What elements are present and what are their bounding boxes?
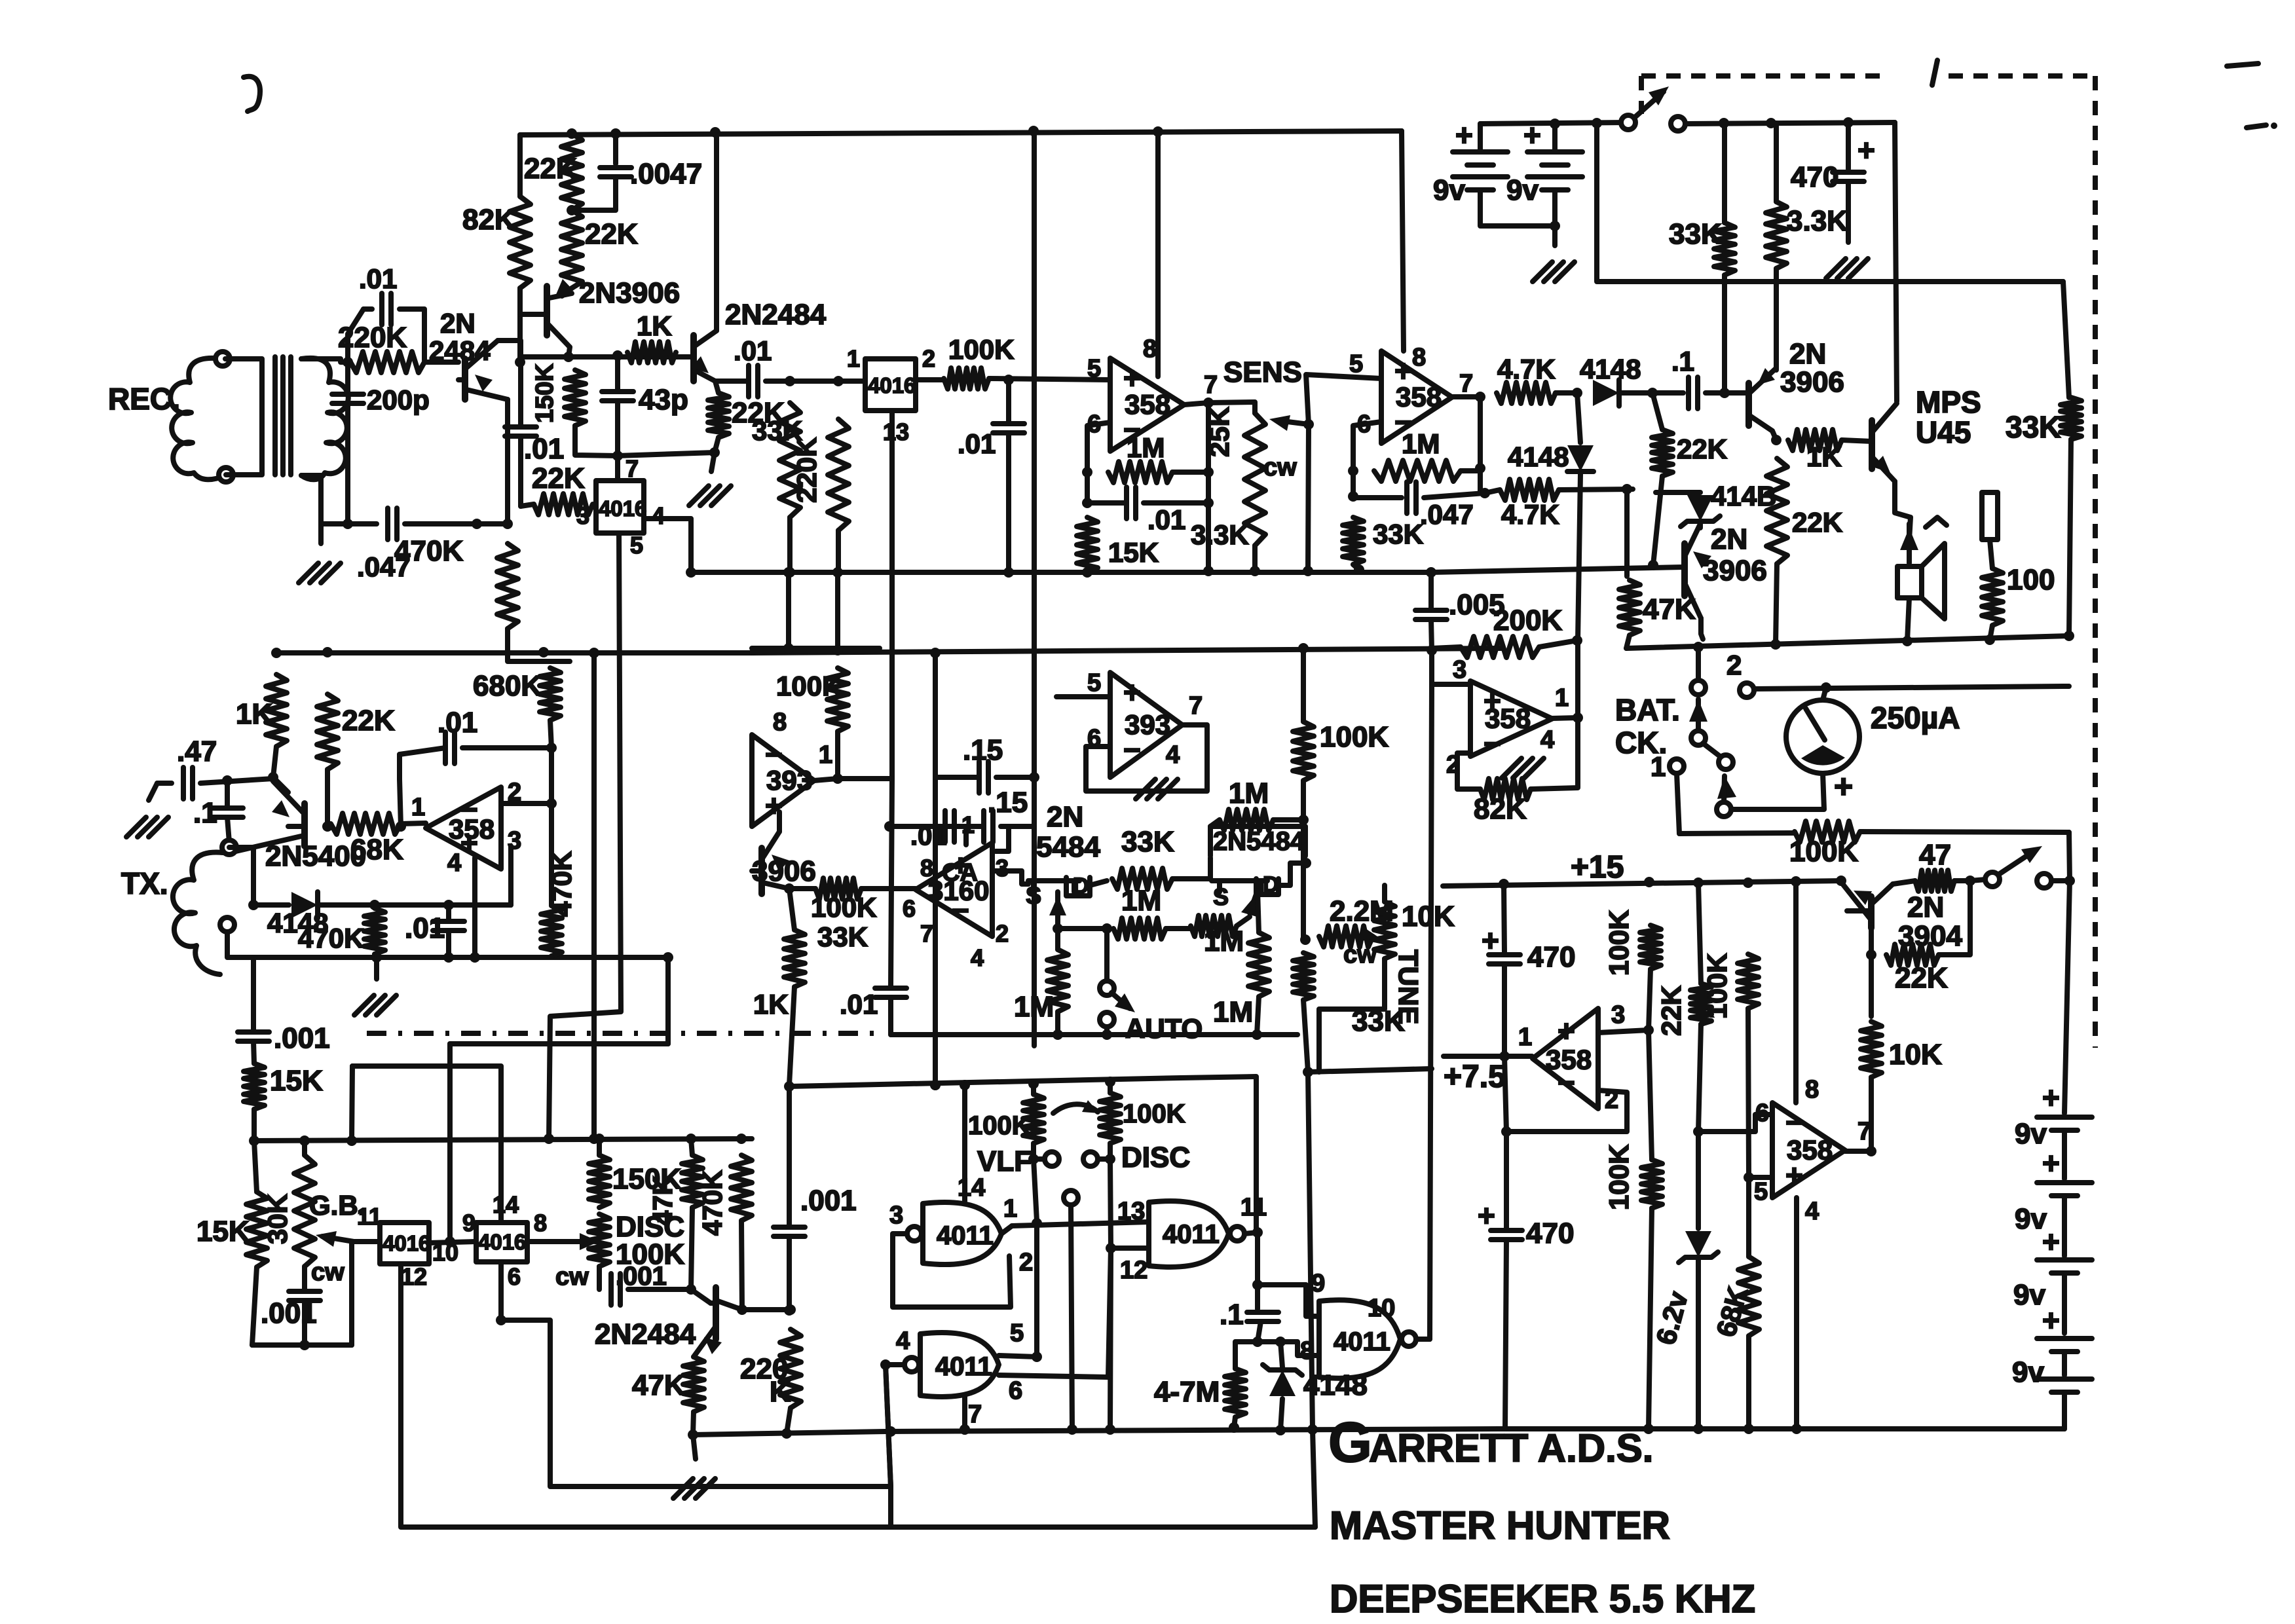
junction emitter/.047 (502, 519, 513, 529)
wire 22Kf bottom (1653, 476, 1662, 565)
label .1 tx (193, 797, 217, 829)
wire pin6 up (1108, 1248, 1111, 1377)
svg-text:14: 14 (493, 1191, 519, 1218)
svg-text:12: 12 (401, 1263, 427, 1290)
capacitor .01 series (749, 365, 758, 397)
potentiometer DISC 100K (589, 1214, 610, 1266)
pin1 u8 (1518, 1024, 1532, 1051)
junction midrail 1206 (785, 567, 795, 578)
inductor RX coil secondary (301, 358, 348, 479)
junction v1428 top (930, 648, 941, 658)
junction 100Kca left (784, 883, 794, 894)
wire u1 fb down (1206, 403, 1211, 572)
label 1M fb (1229, 777, 1269, 809)
wire meter bottom (1733, 773, 1824, 809)
svg-text:100K: 100K (1603, 1145, 1634, 1210)
wire 1M right link (1172, 470, 1208, 475)
svg-text:2: 2 (922, 345, 935, 372)
svg-text:22K: 22K (1895, 962, 1948, 994)
svg-text:4: 4 (1540, 726, 1554, 754)
wire cap.1 out (1706, 390, 1749, 396)
resistor 22K b (561, 210, 582, 288)
wire 470K bottom (508, 629, 570, 661)
label 15K u1 (1108, 537, 1159, 568)
wire q7 base (288, 824, 305, 829)
label 1K b (1806, 441, 1842, 472)
ground tx in (126, 817, 168, 837)
label 82K (462, 204, 515, 236)
junction lr 1428 (930, 1080, 941, 1090)
capacitor .047 u2 (1407, 482, 1416, 513)
svg-text:DISC: DISC (1121, 1141, 1190, 1173)
junction auto tap (1102, 923, 1112, 934)
wire pin12 down (401, 1264, 1315, 1527)
pin8 u5 (773, 709, 787, 736)
wiper arrow GB (316, 1231, 354, 1247)
svg-text:1K: 1K (753, 989, 789, 1020)
pin2 u6 (996, 920, 1009, 947)
junction u3 out (1573, 712, 1583, 723)
wire s3-s4 (2062, 1273, 2067, 1333)
wire 200K wire (1432, 647, 1461, 648)
wire gb rail (254, 1139, 752, 1141)
wire .01 to 4016 (766, 378, 865, 384)
svg-text:1K: 1K (236, 698, 272, 730)
label 47 (1919, 839, 1951, 871)
svg-text:358: 358 (1546, 1044, 1592, 1075)
label 68K (1710, 1283, 1753, 1340)
svg-text:cw: cw (1263, 454, 1297, 481)
svg-text:1: 1 (411, 794, 425, 821)
wire disc node to base (691, 1289, 711, 1303)
label + meter (1834, 768, 1853, 805)
junction 4148d rail (1275, 1425, 1286, 1435)
wire q12 collector wire (742, 1307, 791, 1312)
junction gb rail 15K (249, 1135, 259, 1146)
wire pin4 down (644, 519, 691, 572)
pin13 4016-2 (883, 418, 909, 445)
svg-text:100K: 100K (1123, 1099, 1185, 1128)
wire 47M bottom (1234, 1417, 1235, 1428)
junction gate1 (1053, 923, 1063, 934)
resistor 100 (1982, 568, 2003, 625)
svg-text:.1: .1 (193, 797, 217, 829)
potentiometer 30K GB (294, 1155, 315, 1266)
resistor 680K (540, 668, 561, 720)
wire 1Mfb left (1210, 820, 1220, 826)
svg-text:8: 8 (1805, 1076, 1819, 1103)
label 2484 (429, 335, 491, 366)
battery 9V s1 (2037, 1117, 2092, 1130)
svg-text:11: 11 (357, 1203, 382, 1230)
label TUNE (1393, 950, 1424, 1024)
capacitor .1 tx (212, 808, 243, 817)
IC 4016 analog switch 4 (476, 1223, 527, 1262)
battery 9V s2 (2037, 1183, 2092, 1196)
junction v2297 fb (1501, 1126, 1512, 1137)
wire .01ca to pin1 (962, 826, 966, 845)
ground batteries (1533, 262, 1575, 282)
junction lr vlf (1028, 1079, 1039, 1089)
wire 100K to opamp (989, 378, 1109, 380)
junction +15 100Kb (1743, 877, 1753, 888)
junction 22Kf rail (1648, 560, 1658, 570)
label + s1 (2042, 1080, 2060, 1115)
junction 1M left (1082, 467, 1092, 477)
wire u2 out (1452, 394, 1480, 399)
transistor Q7 2N5400 (236, 781, 305, 851)
capacitor .01 tx (433, 921, 464, 931)
junction pot rail (1250, 566, 1260, 576)
svg-text:.01: .01 (405, 912, 445, 944)
wire 680K bottom (550, 720, 551, 748)
svg-text:1: 1 (847, 345, 860, 372)
wire pin8 out (527, 1239, 593, 1244)
capacitor .01 ca (945, 811, 954, 842)
svg-text:470: 470 (1526, 1217, 1574, 1249)
label 33K b (1669, 218, 1722, 250)
svg-text:.15: .15 (963, 734, 1003, 766)
wire bat stack bottom (2062, 1392, 2067, 1429)
svg-text:82K: 82K (462, 204, 515, 236)
resistor 4.7K b (1500, 479, 1559, 500)
pin2 u4 (508, 779, 521, 806)
svg-text:7: 7 (625, 455, 639, 482)
svg-text:+: + (1523, 118, 1541, 152)
label 22K b (585, 218, 638, 250)
svg-text:150K: 150K (531, 363, 559, 423)
svg-text:9v: 9v (1506, 174, 1539, 206)
label .1 b (1220, 1299, 1244, 1331)
pin14 g1 (958, 1174, 985, 1202)
svg-text:82K: 82K (1474, 793, 1527, 825)
diode 1N4148 tx (291, 892, 318, 918)
junction lr pin14 (960, 1080, 970, 1090)
svg-text:4011: 4011 (935, 1352, 992, 1381)
gate U11 4011b (1149, 1201, 1229, 1267)
svg-text:3.3K: 3.3K (1191, 519, 1249, 550)
label DISC sw (1121, 1141, 1190, 1173)
label 2N2484 q3 (725, 299, 827, 331)
label 4148 a (1580, 354, 1641, 384)
svg-text:4016: 4016 (868, 373, 916, 397)
junction 22K mid (567, 205, 577, 215)
wire zener top (1696, 1132, 1701, 1228)
svg-text:22K: 22K (1677, 434, 1727, 464)
svg-text:+: + (2042, 1225, 2060, 1259)
label 200K (1493, 604, 1562, 637)
label G.B. (309, 1190, 365, 1221)
svg-text:4016: 4016 (599, 496, 646, 521)
pen mark dash right (2247, 122, 2277, 129)
op-amp U6 CA3160 (916, 843, 992, 936)
pin11 g2 (1241, 1194, 1267, 1221)
wire left stub rail (752, 646, 880, 651)
transistor Q5 MPSU45 (1872, 403, 1897, 481)
svg-text:4016: 4016 (478, 1230, 526, 1254)
svg-text:4: 4 (971, 944, 984, 971)
junction pin5 u9 (1744, 1172, 1754, 1183)
wire 43p top (615, 356, 620, 392)
label 100K ca (811, 892, 876, 923)
label 4148 b (1508, 441, 1569, 472)
wire 68K bottom (1746, 1336, 1751, 1429)
bubble 4011c (905, 1357, 919, 1372)
box D j1 (1066, 877, 1090, 896)
wire 30K top (302, 1141, 307, 1155)
pin6 4016 (508, 1263, 521, 1290)
wire Q2 base (520, 312, 547, 317)
svg-text:1K: 1K (637, 310, 672, 341)
junction 33Kb top (1719, 118, 1729, 128)
wire q5 base (1842, 440, 1872, 441)
arrow batck 2 (1717, 776, 1736, 803)
wire battery A top (1478, 124, 1483, 149)
svg-text:33K: 33K (817, 921, 868, 952)
resistor 100K vlf (1023, 1094, 1044, 1143)
wire logic vdd rail (789, 1078, 1181, 1086)
svg-text:5: 5 (1349, 350, 1363, 378)
wire .1 top (225, 781, 230, 808)
label 4011 c (935, 1352, 992, 1381)
svg-text:9v: 9v (2013, 1279, 2045, 1311)
svg-text:3: 3 (889, 1202, 903, 1229)
svg-text:AUTO: AUTO (1125, 1013, 1203, 1044)
transistor Q2 2N3906 (547, 279, 573, 347)
svg-text:TX.: TX. (121, 866, 168, 900)
wire v2297 b0 (1502, 964, 1507, 1056)
wire cap200p top (345, 362, 350, 394)
bubble 4011b (1230, 1227, 1244, 1241)
resistor 4.7M (1225, 1369, 1246, 1417)
wire emitter node to 470K (477, 521, 508, 526)
label 22K f (1677, 434, 1727, 464)
wire g2out down (1255, 1232, 1260, 1309)
junction gb rail 838 (544, 1134, 554, 1144)
pin14 (493, 1191, 519, 1218)
transistor Q11 2N3904 (1841, 882, 1893, 928)
svg-text:3906: 3906 (1703, 555, 1767, 587)
svg-text:470K: 470K (697, 1170, 728, 1236)
label 33K e (752, 415, 802, 446)
junction fbcap right (1203, 498, 1214, 508)
pin4 u6 (971, 944, 984, 971)
label 2N3906 (579, 277, 680, 309)
svg-text:2N: 2N (1047, 801, 1083, 833)
svg-text:2: 2 (1726, 650, 1742, 680)
wire 4148b bottom (1578, 474, 1580, 640)
label 47K c (632, 1369, 685, 1401)
junction switch bat (2064, 876, 2075, 886)
capacitor .0047 (600, 168, 631, 177)
wire .001 to 15K (253, 1041, 254, 1063)
label 100K f (1603, 1145, 1634, 1210)
wire u7 pin5 (1056, 694, 1110, 699)
wire after switch (1685, 122, 1895, 124)
svg-text:+: + (1857, 133, 1875, 167)
svg-text:SENS: SENS (1223, 356, 1302, 388)
label 6.2v (1650, 1288, 1694, 1348)
junction pin4 u4 (470, 952, 480, 963)
label 100K batck (1789, 836, 1858, 868)
svg-text:1M: 1M (1014, 991, 1054, 1023)
svg-text:358: 358 (1125, 389, 1170, 420)
wire 47Kb top (691, 1139, 692, 1155)
svg-text:2: 2 (996, 920, 1009, 947)
label + batA (1455, 118, 1473, 152)
wire v1360 bottom (888, 1486, 893, 1527)
wire fbtx left2 (400, 748, 445, 754)
label 2N (440, 308, 476, 339)
wire corner down (1895, 122, 1897, 401)
label U45 (1916, 415, 1971, 449)
label 470K b (697, 1170, 728, 1236)
svg-text:1M: 1M (1229, 777, 1269, 809)
pin6 u6 (903, 895, 916, 922)
pin 7 (625, 455, 639, 482)
wire u8 pin3 (1598, 1030, 1649, 1033)
label .15 a (963, 734, 1003, 766)
label 2N2484 q12 (595, 1318, 696, 1350)
resistor 1K b (1788, 430, 1842, 451)
wire 3.3K bottom (1774, 268, 1779, 367)
resistor 220K b (780, 1329, 801, 1408)
resistor 100K disc (1100, 1093, 1121, 1143)
junction 22K base (1866, 950, 1876, 960)
pin4 u3 (1540, 726, 1554, 754)
wire gnd tx stub (374, 957, 379, 979)
resistor 100K 393 (827, 668, 848, 731)
wire batck diag (1703, 743, 1723, 758)
wire common down (1071, 1205, 1072, 1430)
label 47K b (647, 1175, 678, 1226)
wire gnd stub (711, 452, 715, 471)
label 5484 j1 (1036, 831, 1100, 863)
junction lrail 1955 (1275, 1425, 1286, 1435)
junction va bot (783, 643, 794, 654)
svg-text:200K: 200K (1493, 604, 1562, 637)
wire +15 drop (1597, 123, 2063, 282)
svg-text:30K: 30K (262, 1194, 293, 1244)
wire 33Kb bottom (1722, 275, 1727, 393)
junction diode node (1572, 388, 1582, 398)
svg-text:2N3906: 2N3906 (579, 277, 680, 309)
wire meter top lead (1823, 688, 1826, 700)
resistor 68K (1738, 1257, 1759, 1336)
wire 15K to rail (252, 1109, 257, 1141)
svg-text:3: 3 (996, 855, 1009, 881)
pin10 (432, 1239, 458, 1266)
wire 4148c bottom (1698, 524, 1703, 528)
resistor 22K f (1652, 430, 1673, 476)
svg-text:+: + (1558, 1014, 1575, 1048)
pin3 u8 (1611, 1001, 1625, 1029)
ground u3 (1502, 758, 1544, 778)
svg-text:100K: 100K (1320, 721, 1389, 753)
label 3.3K (1191, 519, 1249, 550)
label .005 (1449, 589, 1505, 621)
svg-text:3906: 3906 (1780, 366, 1844, 398)
junction disc 47K (686, 1284, 696, 1295)
junction 22Kd gnd (709, 447, 720, 458)
wire out to pot top (1208, 402, 1255, 413)
junction rail B (1153, 126, 1163, 137)
svg-text:.001: .001 (261, 1297, 317, 1329)
svg-text:1: 1 (1555, 684, 1569, 712)
wire loop top-right (400, 309, 424, 360)
label 68K (350, 834, 403, 866)
gate U10 4011a (923, 1202, 1001, 1264)
speaker arrow (1900, 524, 1918, 563)
resistor 1M f (1248, 932, 1269, 997)
label TX. (121, 866, 168, 900)
label 100K e (1603, 910, 1634, 976)
svg-text:33K: 33K (1669, 218, 1722, 250)
svg-text:358: 358 (449, 814, 494, 845)
svg-text:1K: 1K (1806, 441, 1842, 472)
svg-text:100K: 100K (1789, 836, 1858, 868)
wire wiper down (1308, 424, 1309, 572)
wire 4148c top (1656, 490, 1700, 495)
label + 470c (1482, 923, 1499, 957)
wire batB bottom (1552, 190, 1558, 246)
wire 15Kb top (254, 1141, 257, 1192)
wire v537 (352, 1066, 352, 1141)
junction coil/cap top (343, 357, 353, 367)
label 15K a (270, 1065, 323, 1097)
wire switch right (2051, 878, 2070, 883)
label .47 (177, 735, 217, 767)
label + batB (1523, 118, 1541, 152)
wire 22Ki right (1939, 881, 1970, 955)
pin2 u3 (1446, 751, 1460, 779)
wire q3 collector up (714, 135, 719, 331)
label 4016 3 (382, 1231, 430, 1255)
label + 470a (1857, 133, 1875, 167)
wire .01c bottom (1006, 433, 1011, 572)
svg-text:4: 4 (447, 849, 461, 877)
resistor 200K (1461, 637, 1539, 657)
wire to pin3 (508, 846, 513, 905)
svg-text:25K: 25K (1204, 407, 1235, 457)
junction bat b (1550, 119, 1560, 129)
label 470 a (1791, 161, 1838, 193)
capacitor .01 fb (382, 293, 391, 325)
junction txrail 1020 (663, 952, 673, 963)
junction rail 2593 (1693, 642, 1704, 652)
wire 33Kt bottom (1303, 1000, 1308, 1072)
wire 47 right (1954, 878, 1970, 883)
junction wiper (1303, 419, 1314, 430)
svg-text:+7.5: +7.5 (1444, 1060, 1506, 1094)
resistor 100K mid (1293, 722, 1314, 781)
junction auto bottom (1102, 1029, 1112, 1040)
junction 33Ka bottom (1719, 388, 1730, 398)
wire .15b right (1001, 824, 1034, 829)
wire q5 emitter path (1895, 481, 1911, 540)
wire bat stack top (2064, 881, 2070, 1113)
svg-text:4.7K: 4.7K (1501, 499, 1559, 530)
wire mid verticals a (786, 572, 791, 648)
wire s1-s2 (2062, 1130, 2067, 1179)
wire C down to u2 (1402, 131, 1404, 351)
svg-text:MPS: MPS (1916, 385, 1981, 419)
junction gnd tx (371, 952, 382, 963)
label 22K i (1895, 962, 1948, 994)
wire 200K right (1539, 640, 1577, 647)
svg-text:7: 7 (920, 920, 933, 947)
wire 1Mf bottom (1257, 997, 1259, 1035)
